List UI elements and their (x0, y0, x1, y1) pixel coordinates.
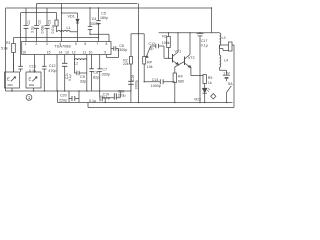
transistor VT2 (185, 33, 191, 68)
svg-text:10k: 10k (147, 65, 153, 69)
svg-text:30Ω: 30Ω (29, 83, 35, 87)
resistor R1 (12, 38, 16, 73)
capacitor C3 (45, 8, 50, 42)
svg-text:1000p: 1000p (151, 84, 161, 88)
svg-text:33p: 33p (80, 80, 86, 84)
capacitor C6 (107, 46, 119, 57)
svg-text:C17: C17 (201, 39, 208, 43)
svg-text:6: 6 (84, 42, 86, 46)
svg-text:E: E (7, 77, 10, 82)
svg-text:2: 2 (35, 42, 37, 46)
resistor R5 (203, 75, 206, 88)
svg-text:0.68p: 0.68p (41, 25, 45, 34)
svg-text:L4: L4 (224, 58, 228, 62)
capacitor C20 cell (58, 91, 80, 103)
svg-text:330p: 330p (102, 73, 110, 77)
svg-text:L1: L1 (67, 26, 71, 30)
svg-text:C4: C4 (92, 17, 97, 21)
svg-text:0.1μ: 0.1μ (29, 69, 36, 73)
svg-text:C8: C8 (93, 71, 98, 75)
svg-text:1000p: 1000p (134, 80, 138, 89)
capacitor C9 (74, 55, 86, 92)
svg-text:0.01μ: 0.01μ (51, 25, 55, 34)
svg-text:E: E (29, 77, 32, 82)
svg-text:C12: C12 (149, 42, 156, 46)
svg-text:VT1: VT1 (175, 49, 182, 53)
svg-text:11: 11 (83, 51, 87, 55)
svg-text:1.5V: 1.5V (223, 71, 230, 75)
earphone element E1 300ohm (5, 72, 20, 91)
svg-text:3.3p: 3.3p (30, 26, 34, 33)
svg-text:SA: SA (228, 82, 233, 86)
wire left border (5, 8, 7, 91)
svg-text:C1: C1 (27, 20, 31, 25)
svg-text:C6: C6 (119, 44, 124, 48)
svg-text:C9: C9 (80, 75, 85, 79)
wire right border (233, 45, 235, 108)
svg-text:C16: C16 (131, 75, 135, 81)
wire top rail A (37, 3, 138, 5)
svg-text:220μ: 220μ (118, 94, 126, 98)
capacitor C18 (105, 91, 120, 100)
svg-text:7: 7 (97, 42, 99, 46)
diode VD1 (76, 19, 79, 41)
wire amp rail (159, 32, 220, 34)
svg-text:C5: C5 (101, 11, 106, 15)
svg-text:0.1μ: 0.1μ (89, 99, 96, 103)
svg-text:220p: 220p (59, 98, 67, 102)
svg-text:15: 15 (47, 51, 51, 55)
svg-text:30Ω: 30Ω (7, 83, 13, 87)
wire top rail B (6, 7, 212, 9)
svg-text:VD1: VD1 (68, 15, 75, 19)
potentiometer RP (143, 34, 151, 82)
wire L3 bottom to earphone (220, 45, 229, 51)
wire ground rail left (6, 90, 131, 92)
capacitor C4 (88, 8, 92, 34)
wire earphone to border (232, 44, 234, 46)
svg-text:12: 12 (72, 51, 76, 55)
svg-text:L2: L2 (74, 62, 78, 66)
svg-text:VD2: VD2 (194, 98, 201, 102)
pin numbers top (25, 42, 108, 46)
switch SA (227, 86, 232, 103)
svg-text:100k: 100k (162, 41, 170, 45)
svg-text:R5: R5 (208, 76, 213, 80)
capacitor C13 plates (18, 66, 22, 69)
svg-text:0.1μ: 0.1μ (103, 96, 110, 100)
capacitor C12 plates (42, 66, 46, 69)
svg-text:1: 1 (25, 42, 27, 46)
svg-text:R3: R3 (162, 34, 167, 38)
capacitor C5 (96, 8, 100, 42)
svg-text:1: 1 (28, 95, 31, 100)
capacitor C11 (62, 55, 67, 92)
svg-text:5.6k: 5.6k (1, 47, 8, 51)
svg-text:TDA7088: TDA7088 (54, 44, 70, 49)
svg-text:C20: C20 (60, 93, 67, 97)
svg-text:C14: C14 (152, 78, 159, 82)
capacitor C7 (98, 55, 102, 92)
svg-text:13: 13 (65, 51, 69, 55)
capacitor C17 (197, 33, 204, 103)
wire ground line right (58, 102, 233, 104)
capacitor C1 (24, 8, 29, 42)
svg-text:3: 3 (46, 42, 48, 46)
capacitor C8 (89, 55, 93, 92)
wire bottom return line (88, 103, 234, 108)
wire pin down x57.2 (56, 55, 58, 92)
wire VD1 top link (62, 13, 78, 19)
svg-text:C2: C2 (37, 20, 41, 25)
svg-text:4: 4 (59, 42, 61, 46)
resistor R3 (167, 33, 171, 59)
wire top rail C (21, 12, 57, 14)
capacitor C2 (34, 4, 39, 42)
svg-text:470p: 470p (48, 69, 56, 73)
wire VT2 emitter down (191, 68, 203, 76)
svg-text:3300p: 3300p (117, 48, 127, 52)
wire pin15 to SB2 (34, 55, 36, 72)
svg-text:14: 14 (59, 51, 63, 55)
earphone plug diamond (211, 94, 216, 99)
wire R2 RP tee (131, 4, 144, 103)
wire pin16 down to mic1 (13, 53, 15, 73)
battery GB (223, 75, 230, 81)
wire VT1 emitter to VT2 base (179, 62, 185, 65)
svg-text:22k: 22k (123, 62, 129, 66)
svg-text:82p: 82p (93, 76, 99, 80)
IC U1 TDA7088 (22, 42, 111, 55)
svg-text:C12: C12 (49, 64, 56, 68)
LED VD2 (203, 88, 211, 102)
trimmer capacitor (55, 20, 58, 26)
svg-text:0.1μ: 0.1μ (201, 43, 208, 47)
svg-text:10: 10 (89, 51, 93, 55)
resistor R4 (173, 65, 178, 103)
svg-text:VT2: VT2 (188, 56, 195, 60)
earphone element E2 300ohm (26, 72, 41, 91)
capacitor C14 (144, 79, 175, 84)
pin numbers bottom (22, 51, 106, 55)
capacitor C16 (128, 64, 133, 103)
wire pin down x44.5 (43, 55, 45, 92)
svg-text:8: 8 (106, 42, 108, 46)
inductor L1 (57, 30, 78, 31)
wire x20.6 down with C13 (20, 13, 22, 72)
wire R1 top long (14, 37, 99, 39)
svg-text:680: 680 (178, 79, 184, 83)
wire VT1 base (164, 57, 173, 59)
svg-text:C13: C13 (29, 64, 36, 68)
svg-text:1k: 1k (208, 81, 212, 85)
inductor L3 (220, 33, 221, 45)
resistor R2 (129, 34, 132, 91)
wire pin8 feed (90, 34, 109, 41)
svg-text:C7: C7 (102, 68, 107, 72)
earphone E (229, 42, 233, 51)
svg-text:RP: RP (147, 60, 153, 64)
wire amp rail feed (211, 8, 213, 33)
svg-text:180p: 180p (100, 16, 108, 20)
svg-text:L3: L3 (222, 36, 226, 40)
svg-text:R4: R4 (178, 74, 183, 78)
capacitor C19 (100, 91, 106, 103)
svg-text:5: 5 (75, 42, 77, 46)
transistor VT1 (173, 33, 179, 65)
svg-text:9: 9 (104, 51, 106, 55)
wire trimmer branch (56, 13, 58, 32)
inductor L2 (74, 55, 86, 61)
capacitor C12b 3p (151, 44, 164, 59)
svg-text:3300p: 3300p (90, 22, 100, 26)
svg-text:0.1μ: 0.1μ (68, 74, 72, 81)
svg-text:3p: 3p (150, 46, 154, 50)
inductor L4 (220, 45, 227, 75)
figure number circle (26, 95, 32, 101)
svg-text:16: 16 (22, 51, 26, 55)
wire oscillator vertical pin4 (61, 4, 63, 42)
svg-text:R1: R1 (6, 41, 11, 45)
svg-text:C3: C3 (48, 20, 52, 25)
